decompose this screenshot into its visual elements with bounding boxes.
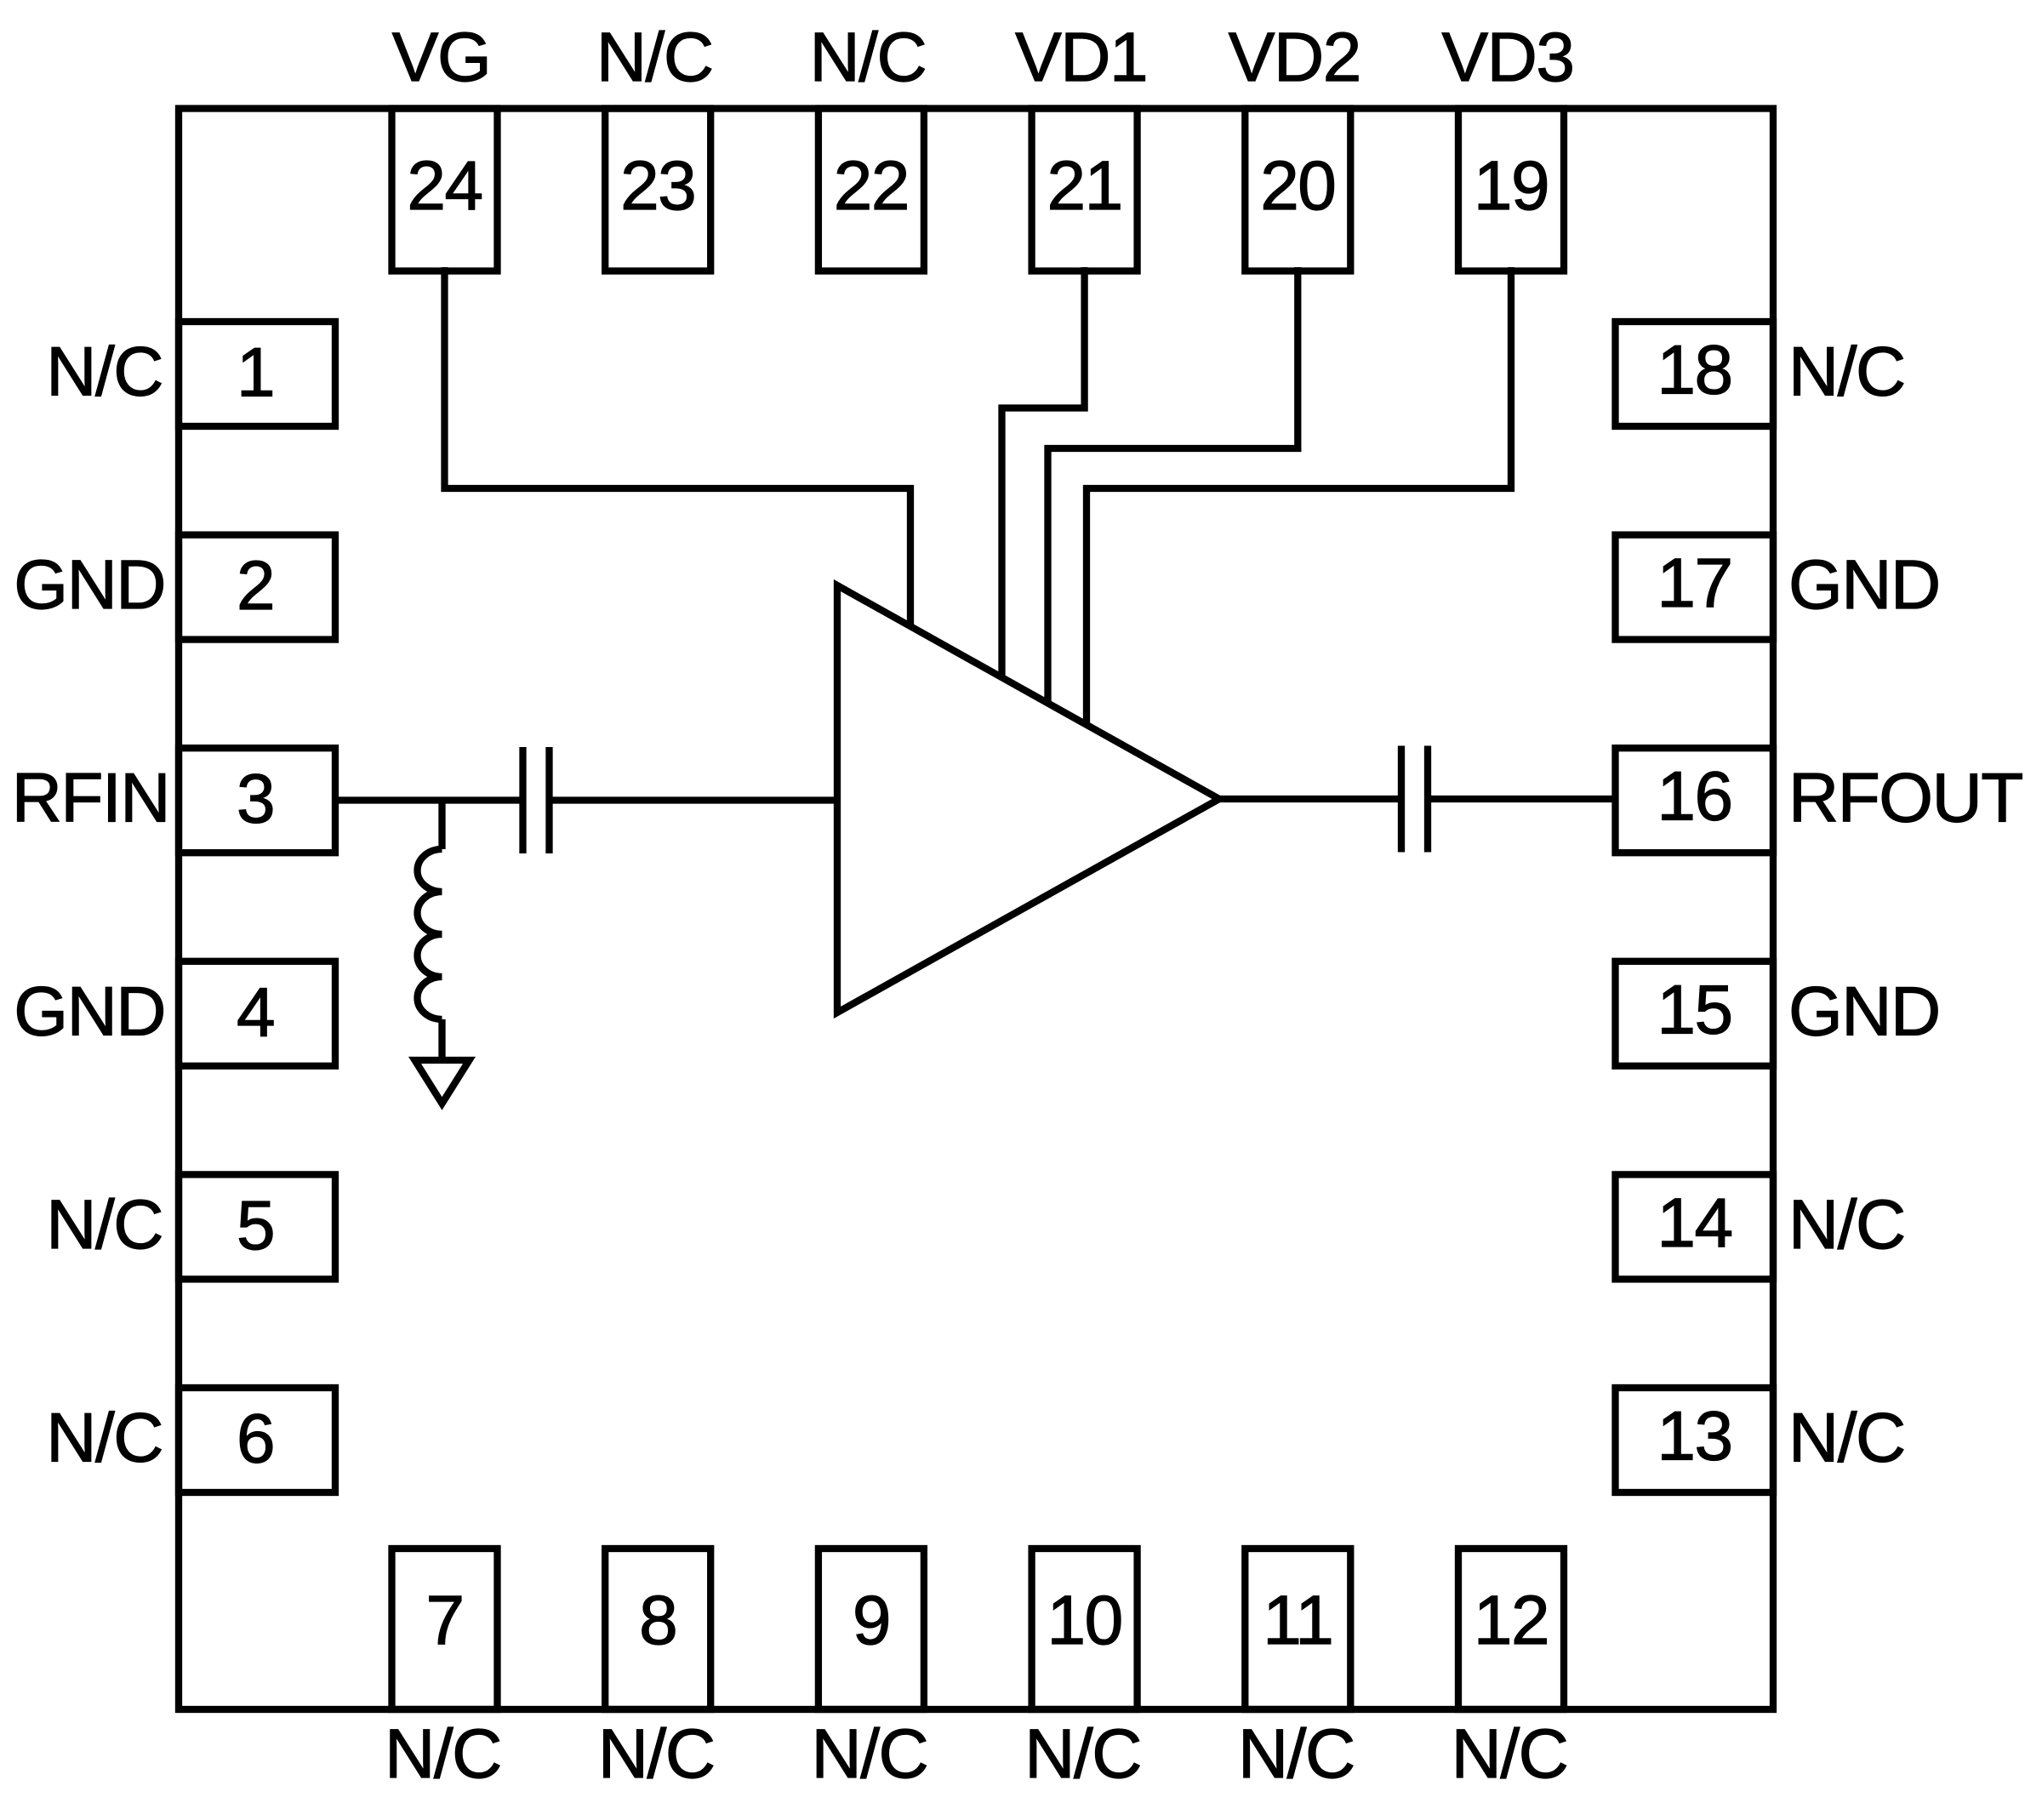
- svg-text:N/C: N/C: [1788, 1186, 1905, 1264]
- svg-text:15: 15: [1657, 971, 1731, 1048]
- svg-text:22: 22: [834, 147, 909, 225]
- svg-text:N/C: N/C: [46, 1186, 163, 1264]
- svg-text:4: 4: [237, 973, 274, 1051]
- svg-text:1: 1: [237, 334, 274, 412]
- svg-text:16: 16: [1657, 758, 1731, 836]
- svg-text:9: 9: [853, 1582, 890, 1659]
- svg-text:N/C: N/C: [1452, 1715, 1568, 1793]
- svg-text:19: 19: [1474, 147, 1549, 225]
- svg-text:N/C: N/C: [1024, 1715, 1141, 1793]
- svg-text:17: 17: [1657, 545, 1731, 622]
- svg-text:7: 7: [425, 1582, 463, 1659]
- svg-text:N/C: N/C: [596, 19, 713, 96]
- svg-text:23: 23: [620, 147, 695, 225]
- svg-text:11: 11: [1263, 1582, 1332, 1659]
- svg-text:RFOUT: RFOUT: [1788, 760, 2022, 837]
- svg-text:N/C: N/C: [598, 1715, 715, 1793]
- svg-text:N/C: N/C: [46, 1400, 163, 1477]
- svg-text:14: 14: [1657, 1184, 1731, 1262]
- svg-text:RFIN: RFIN: [12, 760, 169, 837]
- svg-text:N/C: N/C: [1788, 334, 1905, 411]
- svg-text:3: 3: [237, 761, 274, 838]
- svg-text:VG: VG: [392, 19, 490, 96]
- svg-text:GND: GND: [14, 973, 165, 1050]
- svg-text:5: 5: [237, 1187, 274, 1264]
- svg-text:N/C: N/C: [385, 1715, 501, 1793]
- svg-text:8: 8: [639, 1582, 676, 1659]
- svg-text:N/C: N/C: [1788, 1400, 1905, 1477]
- svg-text:N/C: N/C: [1238, 1715, 1355, 1793]
- svg-text:VD2: VD2: [1229, 19, 1360, 96]
- svg-text:N/C: N/C: [810, 19, 927, 96]
- svg-text:21: 21: [1047, 147, 1121, 225]
- svg-text:10: 10: [1047, 1582, 1121, 1659]
- svg-text:13: 13: [1657, 1398, 1731, 1475]
- svg-text:VD3: VD3: [1441, 19, 1573, 96]
- svg-text:2: 2: [237, 547, 274, 625]
- svg-text:24: 24: [407, 147, 482, 225]
- svg-text:12: 12: [1474, 1582, 1549, 1659]
- svg-text:N/C: N/C: [812, 1715, 928, 1793]
- svg-text:18: 18: [1657, 332, 1731, 409]
- svg-text:6: 6: [237, 1401, 274, 1478]
- svg-text:N/C: N/C: [46, 334, 163, 411]
- svg-text:GND: GND: [1788, 546, 1940, 624]
- svg-text:GND: GND: [14, 546, 165, 624]
- svg-text:GND: GND: [1788, 973, 1940, 1050]
- svg-text:20: 20: [1260, 147, 1335, 225]
- svg-text:VD1: VD1: [1015, 19, 1147, 96]
